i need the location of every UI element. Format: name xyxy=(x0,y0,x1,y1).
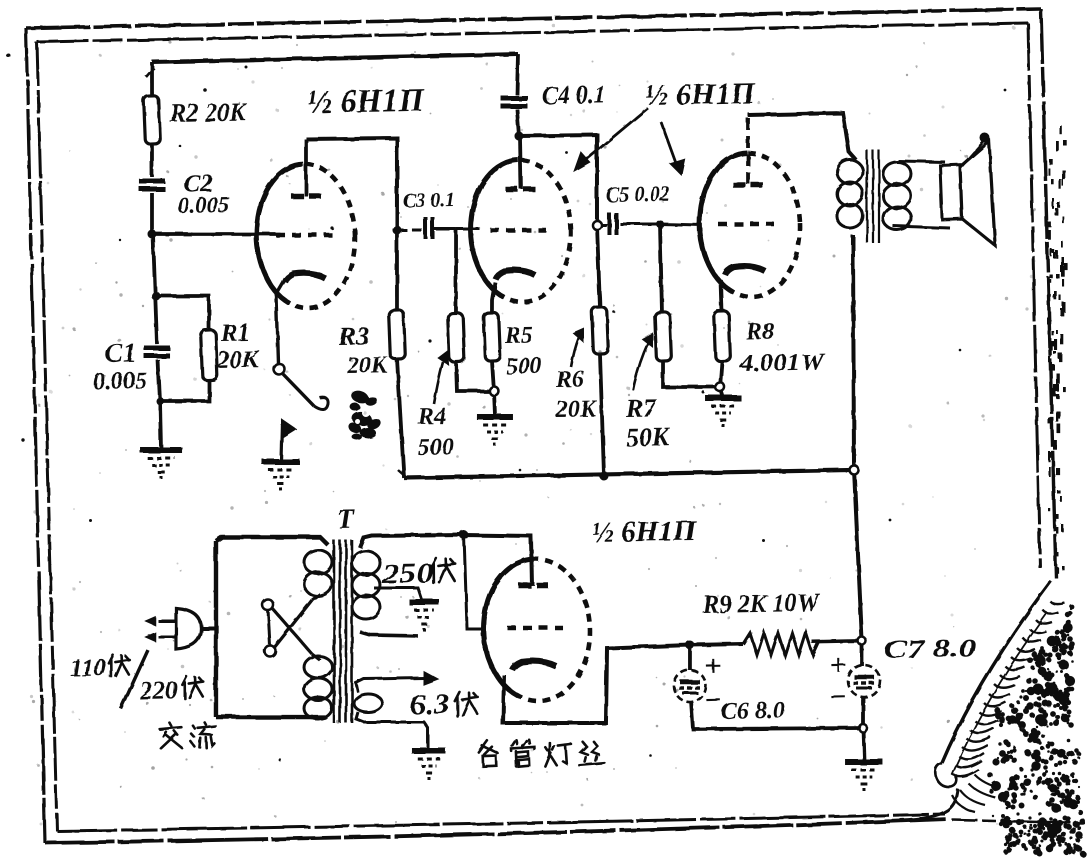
wire output secondary to speaker bottom xyxy=(893,225,950,229)
wire R2 bottom to C2 xyxy=(151,144,152,177)
wire C2 to grid node xyxy=(151,193,153,234)
wire C4 bottom lead xyxy=(517,109,519,136)
label arrow right xyxy=(661,122,677,167)
tube V4 plate xyxy=(518,582,531,588)
svg-text:½ 6Н1П: ½ 6Н1П xyxy=(307,83,425,121)
node C7 top xyxy=(858,637,866,645)
border inner top xyxy=(37,23,1028,42)
wire C6 bottom lead xyxy=(691,698,863,732)
node R6 bus xyxy=(599,471,608,480)
wire R6 bottom to bus xyxy=(600,354,604,476)
wire R1 top branch xyxy=(156,295,210,331)
svg-text:220: 220 xyxy=(139,677,179,705)
node bus right xyxy=(849,465,858,474)
wire R3 bottom to B+ bus xyxy=(397,359,404,478)
svg-text:110: 110 xyxy=(70,654,107,682)
wire filament bottom tap xyxy=(356,711,429,752)
capacitor C6 electrolytic xyxy=(674,670,707,703)
wire grid node to V1 grid xyxy=(152,232,280,237)
wire V3 plate to output transformer xyxy=(748,113,856,162)
page curl fold loop xyxy=(935,763,957,787)
node HV rail xyxy=(459,530,468,539)
tube V3 plate xyxy=(733,182,746,188)
label filament guan xyxy=(511,739,535,767)
wire plate node to R6 node xyxy=(519,135,599,227)
wire ground node G4 xyxy=(720,387,723,397)
wire grid node down to C1 xyxy=(153,234,157,344)
wire output transformer primary bottom B+ xyxy=(850,235,858,470)
wire HV secondary top rail xyxy=(360,533,532,588)
tube V2 envelope xyxy=(468,158,574,304)
border outer right xyxy=(1041,9,1056,578)
label AC liu xyxy=(190,722,216,748)
svg-text:−: − xyxy=(705,684,723,717)
wire V3 plate lead dashed xyxy=(747,115,750,184)
speaker xyxy=(939,141,995,247)
svg-text:R4: R4 xyxy=(417,403,447,430)
wire C3 node to R3 xyxy=(395,230,398,310)
svg-text:50K: 50K xyxy=(626,422,672,452)
capacitor C7 electrolytic xyxy=(848,665,881,698)
wire R8 bottom to ground node xyxy=(720,361,723,387)
border outer bottom xyxy=(45,819,948,843)
svg-text:500: 500 xyxy=(418,434,454,461)
capacitor C3 xyxy=(423,217,428,239)
arrow to R7 xyxy=(632,343,649,390)
wire primary bottom rail xyxy=(216,715,326,719)
wire primary left rail xyxy=(213,541,220,717)
wire node 3 to V3 grid xyxy=(660,223,702,226)
wire filament top tap with arrow xyxy=(356,678,424,692)
scan noise specks xyxy=(203,88,207,92)
node R7 R8 xyxy=(715,382,724,391)
power transformer filament secondary xyxy=(354,693,383,712)
wire R2 top lead xyxy=(151,62,152,96)
wire V3 cathode to R8 xyxy=(719,280,724,311)
tube V1 grid xyxy=(276,234,332,236)
wire primary top rail xyxy=(216,535,328,547)
svg-text:20K: 20K xyxy=(216,346,262,374)
wire ground node G3 xyxy=(494,391,495,416)
svg-text:250: 250 xyxy=(380,558,434,590)
svg-text:T: T xyxy=(337,504,357,535)
label AC jiao xyxy=(159,722,182,748)
wire grid node 2 down to R4 xyxy=(454,229,457,313)
resistor R6 xyxy=(592,307,609,355)
svg-text:R5: R5 xyxy=(504,322,534,349)
resistor R5 xyxy=(484,313,501,362)
page curl outer curve xyxy=(942,581,1051,763)
capacitor C4 xyxy=(501,97,528,98)
svg-text:½ 6Н1П: ½ 6Н1П xyxy=(644,77,756,112)
label arrow left xyxy=(581,108,649,163)
tube V4 grid xyxy=(507,627,563,629)
voltage selector X xyxy=(262,599,273,610)
resistor R1 xyxy=(201,330,218,381)
tube V3 grid xyxy=(718,223,774,225)
svg-text:20K: 20K xyxy=(346,352,389,379)
node C3 xyxy=(392,225,401,234)
wire output secondary to speaker top xyxy=(898,160,945,163)
ground G2 xyxy=(262,461,300,462)
tube V2 plate xyxy=(505,186,518,192)
border outer left xyxy=(26,28,45,843)
wire R9 to C7 node xyxy=(812,639,862,644)
svg-text:R1: R1 xyxy=(220,319,251,347)
svg-text:R6: R6 xyxy=(555,366,585,393)
output transformer core xyxy=(865,150,869,243)
wire B+ down to R9 node xyxy=(854,470,862,641)
svg-text:500: 500 xyxy=(506,353,542,380)
tube V2 cathode xyxy=(495,270,535,279)
resistor R7 xyxy=(655,312,672,362)
voltage slash xyxy=(120,650,149,709)
power transformer HV secondary xyxy=(352,551,381,576)
tube V1 envelope xyxy=(254,162,358,310)
node grid V1 xyxy=(147,229,156,238)
svg-text:R9 2K 10W: R9 2K 10W xyxy=(702,588,821,619)
speaker dot xyxy=(980,133,990,143)
svg-text:6.3: 6.3 xyxy=(410,689,451,721)
wire node 3 down to R7 xyxy=(660,224,662,312)
wire heater rail to R9 node xyxy=(690,644,743,645)
node R6 top xyxy=(592,220,601,229)
ground G1 xyxy=(140,449,182,451)
wire lower node to ground xyxy=(160,401,161,449)
node C5 right xyxy=(656,220,664,228)
wire V1 plate lead xyxy=(305,139,307,196)
label filament deng xyxy=(545,742,572,766)
flag arrow xyxy=(280,424,282,462)
arrow to R6 xyxy=(570,337,579,367)
svg-text:+: + xyxy=(829,649,847,682)
wire top bus R2 to C4 xyxy=(152,54,518,62)
wire R6 node down to R6 xyxy=(597,225,600,307)
wire grid node 2 to V2 grid xyxy=(456,227,480,231)
switch contact xyxy=(273,363,284,374)
wire V1 plate to C3 node xyxy=(306,137,399,231)
tube V4 envelope xyxy=(481,557,593,703)
ground G6 filament xyxy=(412,750,446,751)
svg-text:C3 0.1: C3 0.1 xyxy=(403,189,455,212)
halftone noise xyxy=(715,557,717,559)
page curl hatching xyxy=(952,770,979,777)
tube V2 grid xyxy=(490,229,546,231)
wire rectifier grid tie xyxy=(464,535,483,630)
wire C5 to node 3 xyxy=(620,223,660,225)
resistor R8 xyxy=(714,311,731,362)
torn corner speckle texture xyxy=(1038,667,1047,676)
wire V1 cathode lead xyxy=(276,278,288,363)
ink blob smudge xyxy=(349,388,370,405)
capacitor C1 xyxy=(144,345,170,351)
wire R5 bottom to ground node xyxy=(492,361,494,391)
power transformer primary upper xyxy=(304,549,333,574)
ground G4 xyxy=(705,397,741,398)
wire rectifier cathode down xyxy=(502,645,692,725)
resistor R4 xyxy=(448,313,465,363)
wire C3 to grid node 2 xyxy=(434,227,456,231)
svg-text:R7: R7 xyxy=(625,393,658,423)
wire C1 to lower node xyxy=(158,360,160,401)
svg-text:C5 0.02: C5 0.02 xyxy=(606,181,670,207)
tube V3 envelope xyxy=(697,151,803,299)
wire R1 bottom branch xyxy=(160,380,210,402)
border bottom continuation under curl xyxy=(952,820,1085,823)
wire plug stem xyxy=(198,626,217,631)
node C1 top xyxy=(151,291,160,300)
label filament ge xyxy=(478,740,498,767)
wire R6 node to C5 xyxy=(597,223,607,226)
border inner bottom xyxy=(57,814,945,831)
wire C4 top lead xyxy=(516,54,519,95)
wire V2 plate lead xyxy=(520,136,521,189)
border outer top xyxy=(26,9,1041,28)
svg-text:C4 0.1: C4 0.1 xyxy=(542,80,607,110)
svg-text:−: − xyxy=(829,681,847,714)
tube V1 plate xyxy=(291,193,304,199)
node R4 R5 xyxy=(489,386,498,395)
output transformer primary winding xyxy=(837,159,864,184)
capacitor C5 xyxy=(607,213,612,235)
svg-text:C1: C1 xyxy=(105,337,137,368)
svg-text:4.001W: 4.001W xyxy=(739,349,826,377)
svg-text:½ 6Н1П: ½ 6Н1П xyxy=(591,515,697,549)
border inner left xyxy=(37,42,57,831)
wire HV center tap to ground xyxy=(374,587,422,601)
label filament si xyxy=(578,741,604,765)
svg-text:20K: 20K xyxy=(555,396,598,423)
wire C7 node to ground xyxy=(863,728,864,761)
resistor R9 zigzag xyxy=(743,632,820,657)
wire V2 cathode to R5 xyxy=(491,282,495,313)
power transformer T core xyxy=(330,540,337,723)
ground G3 xyxy=(477,416,513,417)
wire R7 bottom branch xyxy=(663,360,721,388)
svg-text:C7 8.0: C7 8.0 xyxy=(884,633,977,664)
node C7 bottom xyxy=(859,724,867,732)
wire HV bottom stub xyxy=(360,631,418,637)
svg-text:0.005: 0.005 xyxy=(93,368,147,395)
output transformer secondary winding xyxy=(883,161,912,186)
AC plug xyxy=(175,608,201,649)
node plate V2 xyxy=(514,131,523,140)
ground G7 xyxy=(845,761,883,762)
border inner right xyxy=(1028,23,1040,568)
power transformer primary lower xyxy=(304,655,333,678)
capacitor C2 xyxy=(139,178,165,184)
wire C3 node to C3 xyxy=(397,229,424,230)
wire C7 top lead xyxy=(860,641,865,666)
ground G5 HV tap xyxy=(409,601,439,602)
switch arm curl xyxy=(314,398,328,410)
wire B+ bus xyxy=(404,469,854,478)
wire C7 bottom lead xyxy=(862,697,863,728)
page curl inner curve xyxy=(952,613,1047,775)
switch arm xyxy=(283,373,314,406)
arrow to R4 xyxy=(433,362,444,404)
node R9 left xyxy=(685,640,694,649)
svg-text:0.005: 0.005 xyxy=(178,192,230,218)
wire C6 top lead xyxy=(688,645,693,670)
tube V1 cathode xyxy=(285,273,325,282)
resistor R2 xyxy=(144,96,161,145)
arrow 6.3V xyxy=(424,672,437,684)
wire R4 bottom branch xyxy=(456,361,492,391)
svg-text:C6 8.0: C6 8.0 xyxy=(721,698,785,725)
tube V4 cathode xyxy=(512,661,556,670)
svg-text:R2 20K: R2 20K xyxy=(169,97,248,129)
svg-text:+: + xyxy=(704,650,722,683)
node R3 bus corner tick xyxy=(398,470,407,478)
resistor R3 xyxy=(389,310,406,360)
tube V3 cathode xyxy=(725,266,765,275)
svg-text:R3: R3 xyxy=(338,321,370,351)
node C1 bottom xyxy=(156,397,164,405)
page curl bottom border sweep xyxy=(900,789,958,820)
